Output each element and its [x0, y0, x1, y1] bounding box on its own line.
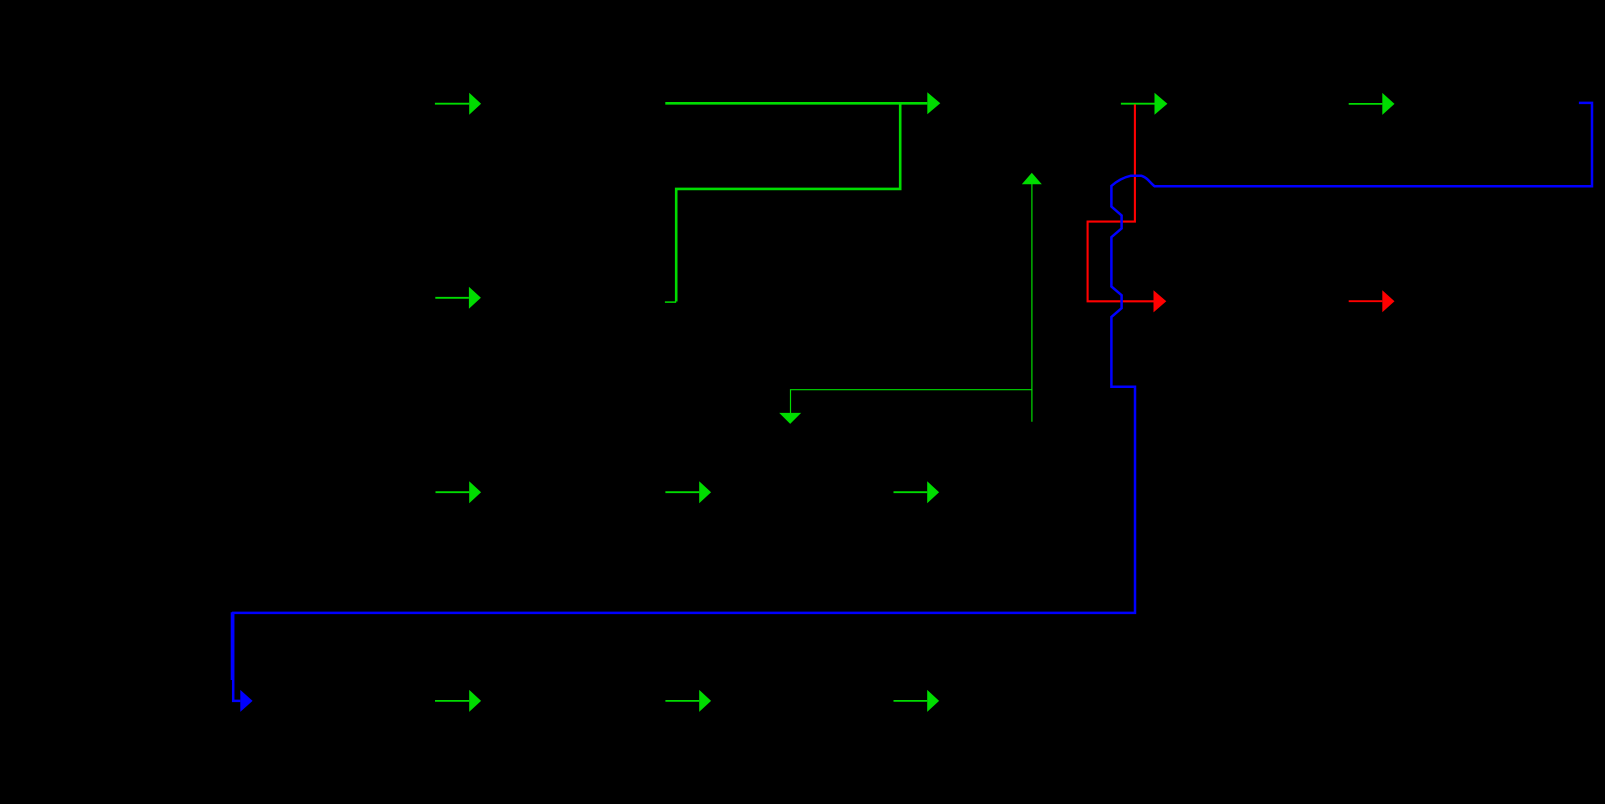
wire: green input arrow row4 col1 shaft	[435, 700, 469, 702]
node: green up arrowhead	[1022, 173, 1042, 184]
node: red arrowhead row2 col5	[1382, 290, 1394, 312]
wire: green input arrow row1 col1 shaft	[435, 103, 469, 105]
wire: green input arrow row3 col2 shaft	[665, 491, 699, 493]
wire: blue vertical thick overlap segment bottom left	[231, 612, 233, 680]
node: blue arrowhead at bottom left	[240, 690, 252, 712]
wire: long green signal row1 col2-col3	[665, 102, 927, 105]
wire: thin green vertical with up arrow	[1031, 184, 1033, 422]
wire: green input arrow row1 col5 shaft	[1349, 103, 1383, 105]
wire: green input arrow row1 col4 shaft	[1121, 103, 1155, 105]
node: green arrowhead row1 col4	[1155, 93, 1168, 115]
wire: green input arrow row2 col1 shaft	[435, 297, 469, 299]
node: green down arrowhead	[779, 413, 801, 424]
node: red arrowhead into col4 block	[1154, 290, 1167, 312]
node: green arrowhead row1 col1	[469, 93, 481, 115]
node: green arrowhead row4 col1	[469, 690, 481, 712]
wire: green branch from row2 block up to row1 line	[676, 103, 900, 301]
node: green arrowhead row3 col2	[699, 481, 711, 503]
wire: green input arrow row3 col1 shaft	[436, 491, 470, 493]
node: green arrowhead row2 col1	[469, 287, 481, 309]
wire: green input arrow row4 col2 shaft	[665, 700, 699, 702]
wire: red input arrow row2 col5 shaft	[1349, 300, 1383, 302]
node: green arrowhead row3 col3	[927, 481, 939, 503]
node: green arrowhead row4 col3	[927, 690, 939, 712]
wire: thin green branch left	[791, 390, 1032, 413]
node: green arrowhead row4 col2	[699, 690, 711, 712]
wire: green input arrow row4 col3 shaft	[894, 700, 928, 702]
wire: green input arrow row3 col3 shaft	[894, 491, 928, 493]
wire: red feedback path	[1088, 104, 1154, 301]
wire: green output stub at row2 block	[665, 301, 676, 303]
node: green arrowhead row1 col5	[1382, 93, 1394, 115]
wire: blue feedback path with line hops	[233, 103, 1592, 701]
node: green arrowhead row3 col1	[469, 481, 481, 503]
node: green arrowhead row1 col3	[927, 92, 940, 114]
